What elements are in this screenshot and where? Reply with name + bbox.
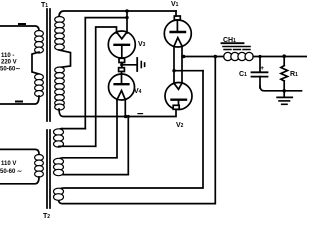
svg-text:V2: V2	[176, 122, 184, 129]
T2 primary winding	[35, 155, 44, 178]
V2 filament	[174, 83, 182, 89]
svg-text:110 -: 110 -	[1, 53, 14, 59]
V4 filament	[117, 91, 125, 100]
svg-text:V3: V3	[138, 41, 146, 48]
wire T2 winding1 top terminal	[62, 128, 85, 130]
transformer T1 label	[41, 2, 48, 9]
wire artifact dash	[138, 113, 143, 115]
T1 secondary upper winding	[55, 17, 65, 51]
V4 anode	[121, 72, 123, 85]
ground (sideways)	[136, 58, 138, 71]
wire T2 winding1 bottom terminal	[59, 145, 96, 147]
tube V3	[108, 31, 135, 58]
svg-text:220 V: 220 V	[1, 60, 17, 66]
wire left filament tap	[174, 70, 203, 72]
V1 anode	[176, 20, 178, 32]
wire V4 left filament leg down to T2 winding 2	[59, 100, 117, 160]
svg-text:+: +	[260, 65, 264, 72]
T2 label	[43, 213, 50, 220]
choke label underline	[222, 42, 244, 44]
ground	[283, 91, 285, 97]
svg-text:V1: V1	[171, 1, 179, 8]
wire filament feed b (from T2 winding 1)	[96, 27, 117, 146]
V2 label	[176, 122, 184, 129]
svg-text:T2: T2	[43, 213, 50, 220]
C1 label	[239, 71, 247, 78]
T1 primary lower winding	[35, 74, 44, 97]
node winding3 tap dot	[214, 55, 218, 59]
wire T1 secondary top to main AC1 line	[59, 11, 176, 17]
wire to chassis ground	[122, 64, 137, 66]
V4 label	[134, 88, 142, 95]
capacitor C1	[259, 57, 261, 72]
svg-text:110 V: 110 V	[1, 161, 16, 167]
node R1 bottom dot	[282, 89, 286, 93]
resistor R1	[283, 56, 285, 66]
wire riser to T2 winding 3 bottom	[59, 57, 216, 204]
choke CH1 winding	[224, 52, 254, 60]
label 110-220V 50-60	[0, 53, 20, 73]
wire T2 primary top input	[0, 149, 39, 154]
V3 base	[119, 58, 125, 62]
tube V2	[165, 83, 192, 110]
node AC2 filament junction dot	[124, 115, 128, 119]
V2 anode	[172, 98, 187, 100]
svg-text:50-60∼: 50-60∼	[0, 67, 20, 73]
node left filament dot	[172, 69, 175, 72]
wire V3 right filament riser from AC1	[126, 11, 128, 33]
tick on top input wire	[19, 23, 25, 25]
T2 winding 3	[54, 188, 64, 200]
wire filament legs V1 to V2	[173, 46, 175, 83]
V1 filament	[174, 38, 182, 47]
wire output from filaments to choke	[182, 56, 225, 58]
node R1 top dot	[282, 54, 286, 58]
wire AC1 into V1 cap	[175, 11, 177, 16]
T2 winding 2	[54, 158, 64, 175]
T2 winding 1	[59, 129, 63, 131]
transformer T2 core	[46, 130, 48, 208]
wire T2 primary bottom input	[0, 177, 39, 184]
wire T1 primary bottom input	[0, 96, 39, 104]
node mid junction dot	[120, 63, 123, 66]
T1 secondary lower winding	[55, 67, 65, 110]
V3 anode plate	[115, 44, 130, 46]
T1 primary upper winding	[35, 31, 44, 54]
V3 filament	[117, 32, 128, 39]
wire AC2 from T1 secondary bottom	[59, 109, 176, 117]
transformer T1 core	[46, 9, 48, 121]
tube V4 cap	[119, 68, 125, 72]
T1 primary tap jog	[32, 52, 39, 74]
tick on bottom input wire	[16, 101, 22, 103]
wire bottom rail	[260, 86, 302, 91]
tube V1 label	[171, 1, 179, 8]
wire T1 primary top input	[0, 26, 39, 31]
svg-text:T1: T1	[41, 2, 48, 9]
V3 label	[138, 41, 146, 48]
choke CH1 label	[223, 37, 236, 44]
V2 cap	[173, 105, 179, 109]
wire V4 right filament leg to AC2	[124, 100, 126, 117]
tube V1 cap	[174, 16, 180, 20]
wire riser from AC2 to T2 winding 2 bottom	[59, 117, 128, 175]
node AC1 junction dot	[125, 9, 129, 13]
label 110V 50-60	[0, 161, 22, 175]
svg-text:50-60 ∼: 50-60 ∼	[0, 169, 22, 175]
choke core lines	[223, 46, 250, 48]
svg-text:V4: V4	[134, 88, 142, 95]
wire V3 plate to V4 plate	[121, 63, 123, 68]
node C1 junction dot	[258, 55, 261, 58]
wire filament feed a (from T2 winding 1)	[85, 18, 127, 129]
R1 label	[290, 71, 298, 78]
tube V1	[164, 20, 191, 47]
wire choke to output	[253, 56, 307, 58]
T1 secondary tap jog	[59, 50, 71, 68]
wire riser to T2 winding 3 top	[59, 71, 203, 191]
tube V4	[109, 74, 135, 100]
svg-text:R1: R1	[290, 71, 298, 78]
node filament junction dot	[125, 16, 128, 19]
node output junction dot	[182, 55, 186, 59]
svg-text:C1: C1	[239, 71, 247, 78]
